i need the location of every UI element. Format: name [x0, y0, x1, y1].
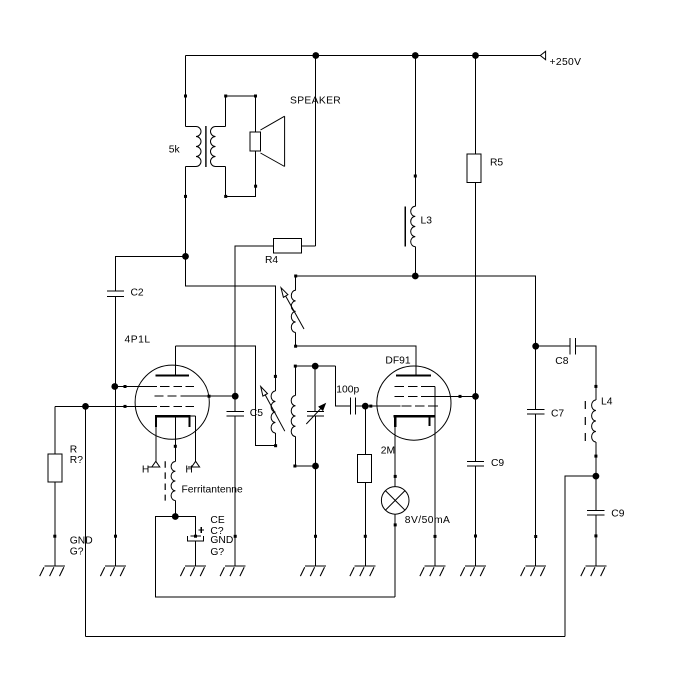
DF91 grid g2	[395, 395, 476, 398]
wire CE to ground	[195, 541, 197, 566]
wire screen rail y276	[294, 275, 536, 347]
svg-text:C9: C9	[611, 509, 624, 520]
capacitor C7	[527, 409, 564, 420]
wire R5 bottom to g2 junction	[475, 182, 477, 396]
wire lamp top	[394, 476, 396, 486]
DF91 grid g3 top	[395, 386, 436, 388]
wire tuned circuit to ground	[314, 466, 317, 566]
wire R5 top	[475, 56, 477, 155]
svg-text:Ferritantenne: Ferritantenne	[182, 484, 244, 495]
junction tuning cap top	[312, 363, 319, 370]
junction g3 node	[82, 403, 89, 410]
junction on top rail at speaker drop	[312, 52, 319, 59]
svg-text:R5: R5	[490, 157, 503, 168]
junction L3-screen rail	[412, 273, 419, 280]
4P1L grid g2	[155, 395, 236, 398]
svg-text:C7: C7	[551, 409, 564, 420]
wire g1 branch to ground	[114, 387, 117, 567]
variable inductor L2 (osc)	[281, 288, 304, 333]
resistor R4	[265, 239, 302, 266]
svg-text:L3: L3	[421, 215, 433, 226]
wire B+ top rail	[186, 55, 541, 57]
ground under C9 right	[581, 566, 607, 576]
svg-text:GND: GND	[70, 536, 93, 547]
junction filament return	[172, 513, 179, 520]
capacitor 100p	[336, 384, 359, 414]
wire R4 right lead	[302, 245, 316, 247]
wire C7 top	[535, 346, 537, 409]
wire C8 to L4	[576, 346, 598, 400]
wire g3 long drop	[85, 406, 87, 636]
wire L4 to bottom rail	[565, 476, 596, 636]
wire filament loop left	[156, 517, 396, 598]
wire C7 to ground	[534, 414, 537, 566]
variable inductor L1 (antenna)	[261, 375, 285, 447]
svg-text:R: R	[70, 444, 77, 455]
wire CE branch	[175, 517, 195, 537]
tube DF91 envelope	[377, 356, 451, 441]
wire C9 right top	[595, 476, 597, 510]
svg-text:DF91: DF91	[385, 356, 410, 367]
junction DF91 grid	[362, 403, 369, 410]
terminal H left	[142, 461, 160, 475]
wire middle coil bottom	[293, 437, 315, 468]
wire L4 bottom	[594, 442, 597, 476]
4P1L anode	[155, 346, 189, 375]
svg-text:C5: C5	[250, 408, 263, 419]
wire C2 bottom	[115, 296, 117, 386]
svg-text:5k: 5k	[169, 145, 181, 156]
ground under R	[40, 536, 93, 576]
svg-text:R4: R4	[265, 255, 278, 266]
wire transformer primary top	[184, 56, 187, 127]
4P1L grid g3	[55, 405, 194, 408]
wire g3 to R	[54, 406, 56, 454]
inductor L4	[585, 396, 612, 442]
variable capacitor CV	[306, 404, 325, 424]
wire grid rail y366	[294, 365, 336, 368]
capacitor C9 mid	[467, 458, 505, 469]
inductor L3	[405, 206, 432, 246]
svg-text:8V/50mA: 8V/50mA	[405, 515, 451, 526]
wire speaker drop to R4	[315, 56, 317, 246]
wire L3 top	[414, 56, 417, 207]
junction tuned circuit bottom	[312, 463, 319, 470]
DF91 filament	[394, 416, 435, 478]
node +250V terminal	[540, 51, 581, 68]
resistor 2M	[358, 446, 396, 483]
wire transformer secondary top to speaker	[224, 95, 257, 133]
svg-text:GND: GND	[210, 535, 233, 546]
svg-text:+250V: +250V	[550, 57, 582, 68]
svg-text:G?: G?	[70, 546, 84, 557]
ground under DF91 g3	[420, 566, 446, 576]
svg-text:L4: L4	[601, 396, 613, 407]
wire grid rail to 100p	[335, 366, 350, 406]
wire C9 right to ground	[594, 515, 597, 566]
wire 2M to ground	[364, 483, 367, 567]
terminal H right	[185, 461, 199, 475]
svg-text:C2: C2	[131, 287, 144, 298]
junction anode-feedback	[182, 253, 189, 260]
wire tuning cap top lead	[314, 366, 316, 412]
lamp 8V/50mA	[381, 487, 450, 527]
label SPEAKER	[290, 95, 341, 106]
svg-text:2M: 2M	[381, 446, 395, 457]
junction on top rail at L3	[412, 52, 419, 59]
svg-text:C8: C8	[555, 356, 568, 367]
transformer T1 5k	[169, 126, 226, 167]
capacitor C2	[107, 287, 144, 298]
speaker LS1	[250, 116, 285, 166]
capacitor C9 right	[587, 509, 625, 520]
resistor R	[48, 444, 83, 482]
wire C9 mid to ground	[474, 466, 477, 566]
svg-text:H: H	[142, 465, 149, 476]
DF91 grid g1	[365, 405, 438, 408]
wire C9 mid top	[475, 396, 477, 461]
wire transformer primary bottom	[184, 167, 187, 257]
wire R to ground	[53, 482, 56, 566]
junction g2-screen	[232, 393, 239, 400]
wire ferrite coil bottom	[174, 501, 176, 517]
svg-text:C9: C9	[491, 458, 504, 469]
inductor ferrite antenna	[165, 461, 243, 500]
ground under C5	[220, 566, 246, 576]
wire osc coil to DF91 anode	[294, 333, 416, 375]
capacitor C8	[555, 338, 575, 367]
wire osc coil top pin	[295, 276, 297, 290]
wire bottom rail AVC	[86, 636, 566, 638]
junction R5-g2	[472, 393, 479, 400]
wire g3 to ground drop	[434, 387, 437, 567]
junction on top rail at R5	[472, 52, 479, 59]
capacitor CE electrolytic	[187, 515, 233, 558]
resistor R5	[467, 154, 503, 182]
svg-text:100p: 100p	[336, 384, 359, 395]
svg-text:R?: R?	[70, 455, 83, 466]
wire C2 branch top	[116, 256, 186, 291]
junction C2-g1	[111, 383, 118, 390]
ground under CE	[180, 566, 206, 576]
capacitor C5	[227, 408, 264, 419]
wire L3 bottom	[414, 247, 416, 276]
wire tuning cap bottom lead	[315, 416, 317, 466]
wire R4 left lead down to C5	[235, 246, 273, 412]
svg-text:CE: CE	[210, 515, 224, 526]
wire 2M top	[364, 406, 366, 454]
wire lamp bottom	[394, 514, 397, 597]
wire feedback to osc coil	[186, 256, 276, 376]
junction C7-C8	[532, 343, 539, 350]
ground under 2M	[350, 566, 376, 576]
wire middle coil top	[295, 366, 297, 395]
svg-text:4P1L: 4P1L	[125, 334, 151, 345]
DF91 anode	[396, 374, 431, 376]
wire C5 to ground	[234, 416, 237, 566]
svg-text:H: H	[185, 465, 192, 476]
4P1L grid g1	[115, 385, 194, 388]
wire 100p to DF91 grid	[356, 405, 366, 407]
junction L4-C9	[593, 473, 600, 480]
ground under tuned circuit	[300, 566, 326, 576]
ground under C9 mid	[460, 566, 486, 576]
tube 4P1L envelope	[125, 334, 210, 439]
wire transformer secondary bottom to speaker	[224, 151, 257, 198]
4P1L filament	[155, 416, 196, 461]
ground under C7	[521, 566, 547, 576]
svg-text:G?: G?	[210, 547, 224, 558]
inductor L2b tuned winding	[291, 396, 295, 437]
wire 4P1L anode to osc coil bottom	[175, 346, 275, 446]
wire C8 left lead	[536, 345, 571, 347]
ground under C2 branch	[100, 566, 126, 576]
